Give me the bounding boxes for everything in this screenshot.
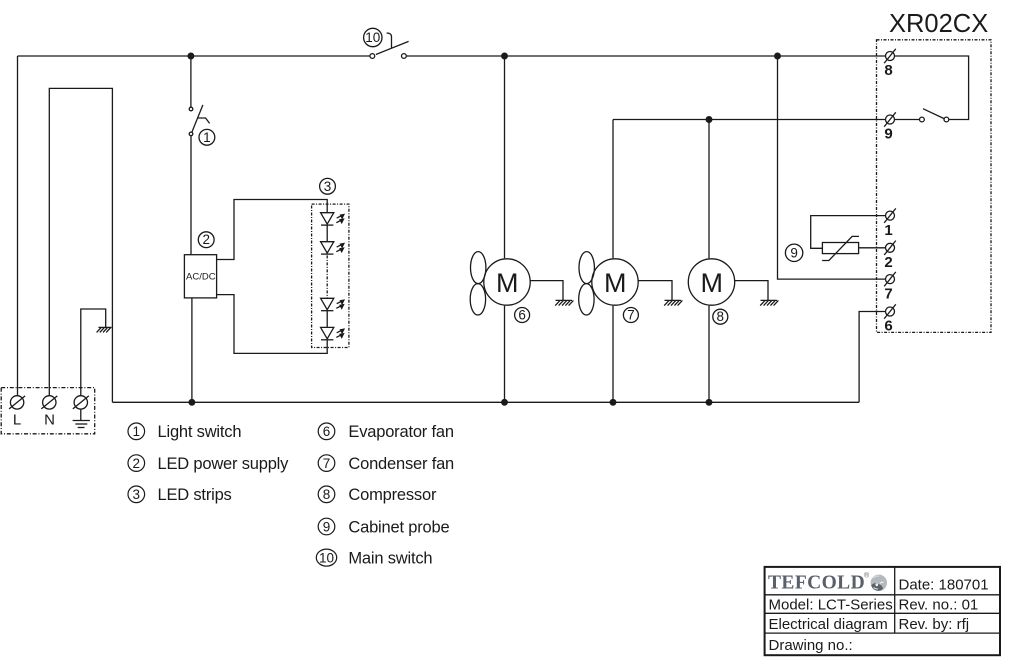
junction node relay wire / M8 (706, 117, 712, 123)
mains terminal dotted box (1, 388, 95, 434)
wire M8 to ground (735, 281, 769, 301)
svg-text:8: 8 (323, 487, 331, 502)
svg-text:6: 6 (884, 318, 892, 335)
LED D2 (321, 242, 344, 254)
wire switched live to terminal 7 (778, 56, 886, 279)
wire probe to terminal 2 (859, 247, 886, 249)
svg-text:®: ® (864, 572, 870, 580)
svg-text:M: M (701, 268, 724, 298)
label 8 (compressor) (713, 309, 728, 324)
wire M7 to bus (612, 306, 614, 403)
svg-text:9: 9 (323, 519, 331, 534)
terminal 9 (884, 112, 896, 142)
label 7 (condenser fan) (623, 307, 638, 322)
svg-text:7: 7 (323, 456, 331, 471)
wire top live bus right segment (406, 55, 885, 57)
LED D4 (321, 327, 344, 339)
terminal L (9, 396, 25, 429)
label 10 (main switch) (364, 28, 382, 46)
svg-text:10: 10 (319, 550, 334, 565)
LED strip dotted box (312, 204, 349, 347)
wire AC/DC to neutral bus (191, 298, 193, 402)
svg-text:9: 9 (884, 126, 892, 143)
wire M8 feed (708, 120, 710, 259)
wire dashed LED continuation (326, 255, 328, 298)
svg-text:2: 2 (133, 456, 141, 471)
wire M6 to ground (530, 281, 563, 301)
terminal 6 (884, 304, 896, 334)
condenser fan motor M7 (592, 259, 638, 305)
label 2 (LED power supply) (198, 232, 214, 248)
wire LED strip return (217, 295, 328, 354)
wire M7 to ground (638, 281, 672, 301)
wire M7 feed (612, 120, 614, 259)
svg-text:1: 1 (133, 424, 141, 439)
junction node top bus / terminal 7 drop (775, 53, 781, 59)
svg-text:Condenser fan: Condenser fan (348, 455, 454, 473)
legend item 1 (128, 423, 241, 441)
junction node bus / motor M6 (502, 400, 508, 406)
XR02CX controller dotted box (877, 40, 992, 333)
wire relay output terminal 9 to fans (613, 119, 885, 121)
svg-text:8: 8 (884, 62, 892, 79)
legend item 6 (318, 423, 454, 441)
fan blades M7 (579, 252, 595, 315)
svg-text:Drawing no.:: Drawing no.: (769, 637, 853, 654)
wire M6 to bus (504, 306, 506, 403)
title block texts (769, 577, 989, 655)
legend item 8 (318, 486, 437, 504)
legend item 10 (316, 549, 432, 567)
label 3 (LED strips) (320, 178, 336, 194)
svg-text:Main switch: Main switch (348, 550, 432, 568)
svg-text:1: 1 (884, 222, 892, 239)
chassis ground (PE) (97, 327, 112, 332)
svg-text:7: 7 (627, 307, 635, 322)
wire D1-D2 (326, 225, 328, 242)
legend item 7 (318, 455, 454, 473)
terminal 2 (884, 241, 896, 271)
svg-text:Rev. by: rfj: Rev. by: rfj (899, 616, 970, 633)
terminal 8 (884, 49, 896, 79)
svg-text:TEFCOLD: TEFCOLD (768, 573, 865, 594)
label 6 (evaporator fan) (515, 307, 530, 322)
LED power supply U2 AC/DC (184, 255, 216, 298)
label 1 (light switch) (199, 129, 215, 145)
svg-text:LED power supply: LED power supply (158, 455, 290, 473)
svg-text:Compressor: Compressor (348, 486, 437, 504)
TEFCOLD logo (768, 572, 887, 594)
svg-text:Cabinet probe: Cabinet probe (348, 518, 449, 536)
svg-text:6: 6 (323, 424, 331, 439)
svg-text:Rev. no.: 01: Rev. no.: 01 (899, 597, 979, 614)
wire top live bus left segment (18, 55, 370, 57)
main switch S10 (370, 33, 409, 58)
door relay switch inside controller (895, 56, 969, 122)
earth symbol under PE (73, 409, 90, 427)
svg-text:LED strips: LED strips (158, 486, 232, 504)
wire N neutral riser (49, 88, 112, 402)
junction node top bus / motor M6 feed (502, 53, 508, 59)
ground M8 (760, 300, 778, 305)
svg-text:M: M (604, 268, 627, 298)
svg-text:2: 2 (884, 254, 892, 271)
light switch S1 (189, 105, 209, 136)
legend item 9 (318, 518, 449, 536)
svg-text:9: 9 (790, 246, 798, 261)
svg-text:3: 3 (324, 179, 332, 194)
legend item 2 (128, 455, 289, 473)
svg-text:M: M (496, 268, 519, 298)
terminal PE (73, 396, 89, 409)
wire M8 to bus (708, 306, 710, 403)
svg-text:XR02CX: XR02CX (889, 10, 988, 38)
ground M7 (664, 300, 682, 305)
LED D1 (321, 213, 344, 225)
svg-text:N: N (44, 412, 55, 429)
wire M6 feed (504, 56, 506, 258)
svg-text:7: 7 (884, 285, 892, 302)
wire neutral bottom bus (112, 401, 859, 403)
evaporator fan motor M6 (484, 259, 530, 305)
svg-text:6: 6 (518, 307, 526, 322)
svg-text:Date: 180701: Date: 180701 (899, 577, 989, 594)
svg-text:2: 2 (202, 232, 210, 247)
wire AC/DC to LED strip top (217, 200, 328, 260)
label 9 (cabinet probe) (785, 244, 802, 261)
terminal 1 (884, 208, 896, 238)
svg-text:10: 10 (365, 30, 380, 45)
svg-text:1: 1 (203, 130, 211, 145)
compressor motor M8 (688, 259, 734, 305)
wire PE to chassis (81, 309, 106, 396)
fan blades M6 (470, 252, 486, 315)
ground M6 (555, 300, 573, 305)
junction node top bus / light branch (188, 53, 194, 59)
title block frame (765, 567, 1000, 655)
terminal 7 (884, 272, 896, 302)
LED D3 (321, 298, 344, 310)
svg-text:Light switch: Light switch (158, 423, 242, 441)
legend item 3 (128, 486, 232, 504)
wire light branch upper (190, 56, 192, 107)
junction node bus / motor M7 (610, 400, 616, 406)
svg-text:Evaporator fan: Evaporator fan (348, 423, 453, 441)
wire L phase drop (17, 56, 19, 396)
junction node bus / AC-DC branch (189, 400, 195, 406)
wire light branch lower (190, 136, 192, 255)
svg-text:8: 8 (717, 309, 725, 324)
svg-text:Model: LCT-Series: Model: LCT-Series (769, 597, 893, 614)
wire D3-D4 (326, 311, 328, 328)
svg-text:3: 3 (133, 487, 141, 502)
wire terminal 1 probe loop (811, 216, 886, 249)
cabinet probe thermistor (822, 236, 859, 260)
junction node bus / motor M8 (706, 400, 712, 406)
svg-text:L: L (13, 412, 21, 429)
svg-text:Electrical diagram: Electrical diagram (769, 616, 888, 633)
terminal N (41, 396, 57, 429)
wire terminal 6 to neutral bus (859, 312, 885, 403)
svg-text:AC/DC: AC/DC (186, 272, 216, 283)
